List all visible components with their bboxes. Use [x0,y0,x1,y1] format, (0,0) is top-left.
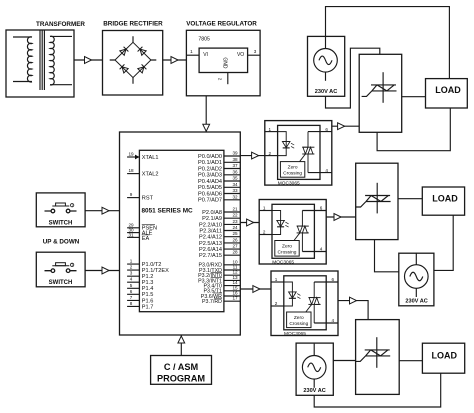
load block LOAD3 [422,343,464,373]
svg-text:21: 21 [232,207,238,212]
svg-text:P0.0/AD0: P0.0/AD0 [198,154,222,160]
secondary winding leads [50,36,72,84]
wire program to 8051 [180,335,182,356]
wire V1 bottom to triac Q1 top [326,48,380,108]
switch S1 [36,193,85,227]
svg-text:4: 4 [130,277,133,282]
diode D4 [138,64,147,73]
svg-text:1: 1 [190,49,193,54]
bridge diamond [115,42,151,77]
svg-text:37: 37 [232,163,238,168]
pin 9 RST [127,192,153,202]
svg-text:VI: VI [203,52,208,58]
wire 8051 P3.4 to MOC U5 [240,288,271,290]
svg-text:P0.7/AD7: P0.7/AD7 [198,198,222,204]
svg-text:1: 1 [130,259,133,264]
svg-text:26: 26 [232,237,238,242]
svg-text:P1.7: P1.7 [142,304,154,310]
wire switch S2 to 8051 [85,270,119,272]
secondary winding L2 [50,36,54,85]
svg-text:XTAL1: XTAL1 [142,155,159,161]
svg-text:8: 8 [130,301,133,306]
svg-text:P1.5: P1.5 [142,292,154,298]
svg-text:GND: GND [222,57,228,69]
P2 pins 21-28 [199,207,240,260]
svg-text:P2.7/A15: P2.7/A15 [199,253,222,259]
svg-text:P0.3/AD3: P0.3/AD3 [198,173,222,179]
transformer T1 [6,21,85,97]
primary winding leads [13,37,32,82]
svg-text:TRANSFORMER: TRANSFORMER [36,21,85,28]
svg-text:24: 24 [232,225,238,230]
P3 pins 10-17 [198,259,240,305]
wire V3 bottom to LOAD3 bottom [314,373,441,407]
svg-text:P2.2/A10: P2.2/A10 [199,222,222,228]
svg-text:SWITCH: SWITCH [49,280,73,286]
svg-text:34: 34 [232,182,238,187]
svg-text:P1.3: P1.3 [142,280,154,286]
svg-text:C / ASM: C / ASM [164,362,199,372]
wire regulator to 8051 [205,96,207,132]
triac Q1 symbol [362,72,397,103]
switch S2 [36,252,85,287]
svg-text:LOAD: LOAD [435,85,461,95]
load block LOAD1 [426,79,468,108]
svg-text:33: 33 [232,188,238,193]
svg-text:22: 22 [232,213,238,218]
svg-text:P0.2/AD2: P0.2/AD2 [198,166,222,172]
svg-text:230V AC: 230V AC [405,298,428,304]
triac Q2 box [356,163,398,239]
diode D3 [120,64,129,73]
svg-text:P2.1/A9: P2.1/A9 [202,216,222,222]
svg-text:P0.6/AD6: P0.6/AD6 [198,191,222,197]
wire triac Q2 to LOAD2 [398,198,422,200]
ac source V3 230V AC [296,343,333,395]
optocoupler U5 MOC3065 [271,271,338,337]
wire triac Q1 bottom to LOAD1 bottom [377,108,450,151]
pin 19 XTAL1 [127,151,158,161]
wire MOC U4 to triac Q2 [326,216,356,218]
svg-text:3: 3 [254,49,257,54]
svg-text:8051 SERIES MC: 8051 SERIES MC [142,208,194,215]
svg-text:P2.3/A11: P2.3/A11 [199,228,222,234]
svg-text:39: 39 [232,151,238,156]
svg-text:VOLTAGE REGULATOR: VOLTAGE REGULATOR [186,21,257,28]
regulator pin 1 VI [186,54,199,56]
microcontroller U1 8051 [120,132,241,335]
wire V3 to triac Q3 [333,360,355,362]
wire MOC U5 to triac Q3 [338,301,368,320]
pin 31 EA [127,232,149,242]
svg-text:6: 6 [130,289,133,294]
voltage regulator U2 7805 [186,21,260,96]
svg-text:PROGRAM: PROGRAM [157,373,205,383]
svg-text:P2.6/A14: P2.6/A14 [199,247,222,253]
svg-text:18: 18 [128,168,134,173]
wire triac Q2 bottom to V2 [375,240,399,272]
svg-text:3: 3 [130,271,133,276]
wire 8051 P0.0 to MOC U3 [240,155,264,157]
pin 30 ALE [127,227,153,236]
regulator pin 3 VO [248,54,261,56]
transformer box [6,30,74,97]
pin 29 PSEN [127,222,157,231]
primary winding L1 [27,37,32,82]
svg-text:P0.1/AD1: P0.1/AD1 [198,160,222,166]
triac Q2 symbol [356,183,391,214]
svg-text:P1.1/T2EX: P1.1/T2EX [142,268,169,274]
svg-text:38: 38 [232,157,238,162]
svg-text:32: 32 [232,194,238,199]
bridge terminal stubs [110,36,157,84]
triac Q3 symbol [355,337,390,368]
wire MOC U3 to triac Q1 [332,125,359,127]
svg-text:P2.4/A12: P2.4/A12 [199,235,222,241]
P0 pins 39-32 [198,151,240,204]
svg-text:VO: VO [237,52,244,58]
load block LOAD2 [422,187,464,215]
svg-text:28: 28 [232,250,238,255]
svg-text:RST: RST [142,196,154,202]
wire bridge to regulator [163,59,187,61]
svg-text:2: 2 [130,265,133,270]
triac Q1 box [359,54,402,132]
program block C/ASM [151,356,212,385]
diode D1 [120,47,129,56]
svg-text:LOAD: LOAD [432,194,458,204]
optocoupler U3 MOC3065 [265,121,332,187]
svg-text:P0.4/AD4: P0.4/AD4 [198,179,222,185]
svg-text:BRIDGE RECTIFIER: BRIDGE RECTIFIER [103,21,163,28]
svg-text:P2.0/A8: P2.0/A8 [202,210,222,216]
svg-text:9: 9 [130,192,133,197]
svg-text:EA: EA [142,236,150,242]
transformer core [40,30,44,90]
wire LOAD2 bottom to V2 [434,215,453,270]
svg-text:2: 2 [218,78,223,81]
svg-text:31: 31 [128,232,134,237]
pin 18 XTAL2 [127,168,158,178]
ac source V2 230V AC [399,253,434,306]
svg-text:P2.5/A13: P2.5/A13 [199,241,222,247]
svg-text:35: 35 [232,176,238,181]
svg-text:XTAL2: XTAL2 [142,172,159,178]
svg-text:5: 5 [130,283,133,288]
triac Q3 box [356,320,400,395]
optocoupler U4 MOC3065 [259,200,326,266]
svg-text:230V AC: 230V AC [315,89,338,95]
ac source V1 230V AC [308,36,345,96]
svg-text:27: 27 [232,244,238,249]
regulator inner body [199,48,248,72]
svg-text:P3.7/RD: P3.7/RD [202,299,222,305]
wire switch S1 to 8051 [85,210,119,212]
svg-text:230V AC: 230V AC [303,388,326,394]
wire triac Q1 to LOAD1 [402,96,426,98]
svg-text:SWITCH: SWITCH [49,220,73,226]
svg-text:7805: 7805 [198,36,210,42]
wire transformer to bridge [74,59,103,61]
svg-text:36: 36 [232,169,238,174]
bridge rectifier BR1 [103,21,164,96]
svg-text:UP & DOWN: UP & DOWN [43,239,80,246]
P1 pins 1-8 [127,259,169,311]
svg-text:17: 17 [232,296,238,301]
svg-text:23: 23 [232,219,238,224]
svg-text:P0.5/AD5: P0.5/AD5 [198,185,222,191]
svg-text:25: 25 [232,231,238,236]
svg-text:7: 7 [130,295,133,300]
wire 8051 P2.2 to MOC U4 [240,222,259,224]
diode D2 [138,47,147,56]
svg-text:LOAD: LOAD [432,351,458,361]
wire triac Q3 to LOAD3 [399,360,422,362]
regulator pin 2 GND [227,73,229,85]
wire V1 top to LOAD1 top [326,7,450,79]
svg-text:19: 19 [128,151,134,156]
